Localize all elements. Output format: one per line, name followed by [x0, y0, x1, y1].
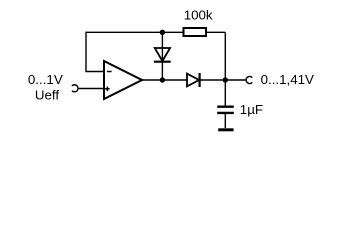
wire feedback top [86, 31, 225, 33]
wire feedback left vertical [85, 32, 87, 72]
junction dot node B opamp output [160, 77, 165, 82]
svg-text:1µF: 1µF [240, 102, 263, 117]
junction dot node A top [160, 30, 165, 35]
ground [218, 128, 233, 131]
junction dot node C output [223, 77, 228, 82]
diode D1 (vertical, feedback) [154, 48, 171, 62]
capacitor C1 1uF [217, 107, 234, 113]
wire right vertical from resistor to node [224, 32, 226, 105]
op-amp U1 [104, 61, 142, 99]
diode D2 (series, horizontal) [187, 73, 200, 87]
terminal output [246, 76, 252, 83]
wire capacitor to ground [224, 114, 226, 128]
wire non-inverting input [78, 88, 104, 90]
wire op-amp output [142, 79, 187, 81]
svg-text:0...1,41V: 0...1,41V [261, 72, 314, 87]
resistor R1 100k [184, 28, 207, 36]
svg-text:100k: 100k [184, 7, 213, 22]
wire inverting input [85, 71, 104, 73]
wire diode branch vertical [161, 32, 163, 80]
svg-text:0...1V: 0...1V [28, 72, 63, 87]
terminal input [72, 85, 78, 92]
wire output node [200, 79, 247, 81]
svg-text:Ueff: Ueff [35, 87, 59, 102]
